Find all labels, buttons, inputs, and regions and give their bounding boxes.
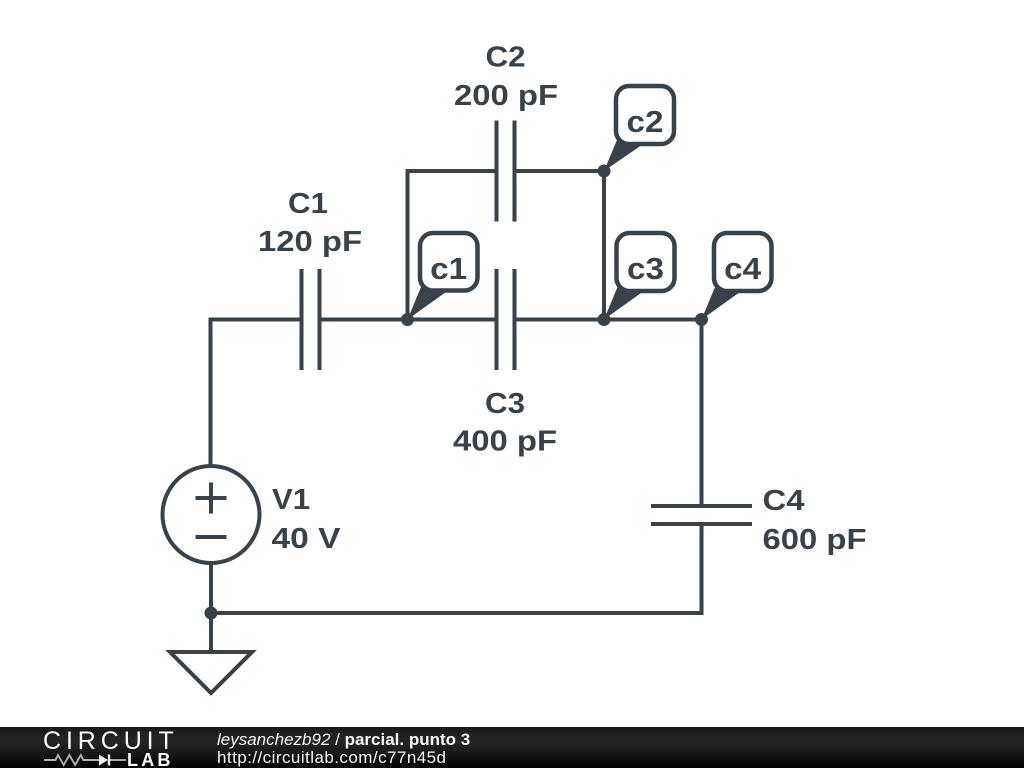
footer bar	[0, 727, 1024, 768]
svg-text:C2: C2	[486, 42, 526, 74]
voltage source V1 minus sign	[196, 535, 227, 539]
wire from C2 right plate to node c2 and down to node c3	[515, 171, 605, 320]
node c3 junction dot	[598, 313, 611, 326]
capacitor C1 plates	[302, 269, 320, 370]
node c1 junction dot	[401, 313, 414, 326]
svg-text:c2: c2	[627, 104, 664, 139]
node c3 flag pointer	[604, 287, 650, 320]
node c2 junction dot	[598, 165, 611, 178]
node c4 junction dot	[695, 313, 708, 326]
wire from V1 top lead up and right to C1 left plate	[211, 320, 303, 467]
ground symbol	[170, 652, 252, 693]
wire from node c4 down to C4 top plate	[700, 320, 704, 507]
voltage source V1 plus sign	[196, 483, 227, 514]
node c1 flag box	[420, 233, 478, 291]
wire from node c1 up to C2 left lead	[408, 171, 497, 320]
svg-text:40 V: 40 V	[272, 523, 342, 555]
CircuitLab logo word CIRCUIT	[43, 727, 179, 756]
svg-text:c4: c4	[724, 251, 762, 286]
node c4 flag box	[714, 233, 772, 291]
capacitor C4 plates	[651, 506, 752, 524]
svg-text:120 pF: 120 pF	[258, 226, 362, 258]
node c2 flag box	[616, 86, 674, 144]
svg-text:C3: C3	[485, 388, 525, 420]
attribution text	[217, 731, 470, 769]
svg-text:400 pF: 400 pF	[453, 426, 557, 458]
CircuitLab logo resistor-diode icon	[44, 752, 128, 768]
node c1 flag pointer	[408, 287, 454, 320]
CircuitLab logo word LAB	[127, 750, 174, 771]
svg-text:200 pF: 200 pF	[454, 80, 558, 112]
wire from C4 bottom plate down and left along bottom to ground node	[211, 524, 702, 613]
node c2 flag pointer	[604, 140, 649, 171]
svg-text:c1: c1	[430, 251, 467, 286]
node junction dot at bottom of V1	[205, 607, 218, 620]
node c4 flag pointer	[702, 287, 748, 320]
wire from C3 right plate through node c3 to node c4	[515, 318, 702, 322]
svg-text:600 pF: 600 pF	[763, 524, 867, 556]
voltage source V1 circle	[163, 466, 260, 563]
capacitor C3 plates	[497, 269, 515, 370]
svg-text:c3: c3	[627, 251, 664, 286]
wire from C1 right plate to node c1 then to C3 left plate	[320, 318, 497, 322]
svg-text:V1: V1	[272, 484, 310, 516]
wire from V1 bottom lead to ground symbol	[209, 563, 213, 652]
node c3 flag box	[617, 233, 675, 291]
capacitor C2 plates	[497, 121, 515, 222]
svg-text:C4: C4	[763, 485, 805, 517]
svg-text:C1: C1	[288, 188, 328, 220]
